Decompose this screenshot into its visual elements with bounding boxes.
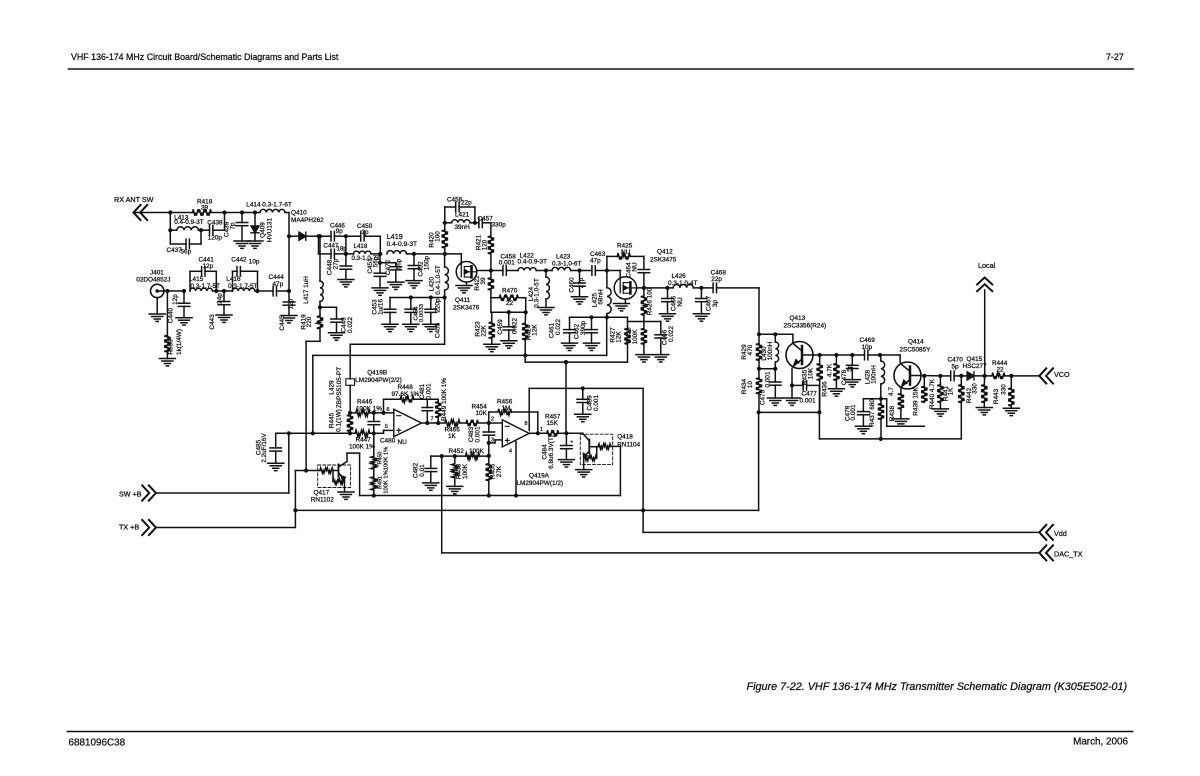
svg-text:Figure 7-22. VHF 136-174 MHz T: Figure 7-22. VHF 136-174 MHz Transmitter… bbox=[747, 681, 1128, 693]
svg-text:ZBPS5105-PT: ZBPS5105-PT bbox=[336, 367, 343, 408]
svg-text:9p: 9p bbox=[336, 228, 343, 235]
svg-text:100K 1%: 100K 1% bbox=[384, 470, 390, 494]
svg-text:C440: C440 bbox=[168, 308, 175, 324]
svg-text:0.001: 0.001 bbox=[850, 404, 857, 420]
svg-text:C477: C477 bbox=[802, 391, 818, 398]
svg-text:7p: 7p bbox=[230, 222, 237, 230]
svg-text:2: 2 bbox=[491, 417, 494, 423]
svg-text:C444: C444 bbox=[269, 274, 285, 281]
svg-text:27p: 27p bbox=[578, 277, 585, 288]
svg-text:LM2904PW(1/2): LM2904PW(1/2) bbox=[517, 480, 564, 487]
svg-text:2SK3475: 2SK3475 bbox=[650, 257, 677, 264]
svg-text:VHF 136-174 MHz Circuit Board/: VHF 136-174 MHz Circuit Board/Schematic … bbox=[71, 52, 339, 62]
svg-text:R569: R569 bbox=[168, 339, 175, 355]
svg-text:22p: 22p bbox=[461, 200, 472, 207]
svg-text:DAC_TX: DAC_TX bbox=[1054, 550, 1083, 559]
svg-text:56p: 56p bbox=[181, 249, 192, 256]
svg-text:RN1102: RN1102 bbox=[311, 497, 334, 504]
svg-text:68nH: 68nH bbox=[598, 289, 605, 305]
svg-text:NU: NU bbox=[677, 297, 684, 307]
svg-text:R448: R448 bbox=[398, 384, 414, 391]
svg-text:0.022: 0.022 bbox=[512, 318, 519, 334]
svg-text:Q409: Q409 bbox=[260, 222, 267, 238]
svg-text:470: 470 bbox=[747, 344, 754, 355]
svg-text:39: 39 bbox=[201, 205, 209, 212]
svg-text:22p: 22p bbox=[711, 276, 722, 283]
svg-text:100K 1%: 100K 1% bbox=[384, 447, 390, 471]
svg-text:24p: 24p bbox=[217, 293, 224, 304]
svg-text:47p: 47p bbox=[590, 258, 601, 265]
svg-text:22: 22 bbox=[506, 300, 514, 307]
svg-text:100nH: 100nH bbox=[767, 341, 774, 360]
svg-text:02DO4852J: 02DO4852J bbox=[136, 276, 170, 283]
svg-text:0.4-0.9-3T: 0.4-0.9-3T bbox=[518, 258, 548, 265]
svg-text:0.001: 0.001 bbox=[593, 395, 600, 411]
svg-text:100K 1%: 100K 1% bbox=[349, 444, 375, 451]
svg-text:39: 39 bbox=[480, 277, 487, 285]
svg-text:C459: C459 bbox=[497, 319, 504, 335]
svg-text:97.6K 1%: 97.6K 1% bbox=[392, 391, 420, 398]
svg-text:R445: R445 bbox=[329, 412, 336, 428]
svg-text:C438: C438 bbox=[207, 219, 223, 226]
svg-text:220: 220 bbox=[306, 316, 313, 327]
svg-text:C470: C470 bbox=[948, 357, 964, 364]
svg-text:1: 1 bbox=[540, 427, 543, 433]
svg-text:2SC3356(R24): 2SC3356(R24) bbox=[784, 323, 827, 330]
svg-text:L416: L416 bbox=[226, 276, 241, 283]
svg-text:4.7K: 4.7K bbox=[827, 363, 834, 377]
svg-text:0.4-0.9-3T: 0.4-0.9-3T bbox=[174, 219, 204, 226]
svg-text:1k(1/4W): 1k(1/4W) bbox=[176, 329, 183, 355]
svg-text:L421: L421 bbox=[455, 212, 470, 219]
svg-text:2SC5085Y: 2SC5085Y bbox=[900, 347, 932, 354]
svg-text:4: 4 bbox=[509, 449, 512, 455]
svg-text:Q412: Q412 bbox=[657, 249, 673, 256]
svg-text:27K: 27K bbox=[496, 465, 503, 477]
svg-text:R438: R438 bbox=[889, 405, 896, 421]
svg-text:15K: 15K bbox=[547, 420, 559, 427]
svg-text:R470: R470 bbox=[502, 288, 518, 295]
svg-text:0.022: 0.022 bbox=[347, 317, 354, 333]
svg-text:330p: 330p bbox=[492, 222, 507, 229]
svg-text:220p: 220p bbox=[435, 298, 442, 313]
svg-text:12p: 12p bbox=[203, 263, 214, 270]
svg-text:Q411: Q411 bbox=[455, 297, 471, 304]
svg-text:22K: 22K bbox=[481, 325, 488, 337]
svg-text:RX ANT SW: RX ANT SW bbox=[114, 195, 154, 204]
svg-text:10K: 10K bbox=[476, 410, 488, 417]
svg-text:R436: R436 bbox=[822, 381, 829, 397]
svg-text:6: 6 bbox=[387, 407, 390, 413]
svg-text:SW +B: SW +B bbox=[119, 490, 142, 499]
svg-text:C460: C460 bbox=[569, 277, 576, 293]
svg-text:18p: 18p bbox=[337, 246, 348, 253]
svg-text:C480: C480 bbox=[380, 438, 396, 445]
svg-text:L417 1uH: L417 1uH bbox=[303, 276, 310, 304]
svg-text:27p: 27p bbox=[333, 258, 340, 269]
svg-text:22: 22 bbox=[997, 367, 1005, 374]
svg-text:L419: L419 bbox=[387, 232, 403, 241]
svg-text:39nH: 39nH bbox=[455, 224, 471, 231]
svg-text:0.001: 0.001 bbox=[800, 398, 816, 405]
svg-text:0.4-1.0-5T: 0.4-1.0-5T bbox=[435, 265, 442, 295]
svg-text:Q410: Q410 bbox=[291, 210, 307, 217]
svg-text:10: 10 bbox=[747, 381, 754, 389]
svg-text:C475: C475 bbox=[760, 389, 767, 405]
svg-text:100: 100 bbox=[435, 231, 442, 242]
svg-text:0.001: 0.001 bbox=[426, 383, 433, 399]
svg-text:6.8u6.3V(T): 6.8u6.3V(T) bbox=[548, 435, 555, 469]
svg-text:2.2uF/16V: 2.2uF/16V bbox=[261, 433, 268, 463]
svg-text:5p: 5p bbox=[847, 364, 854, 372]
svg-text:C455: C455 bbox=[435, 322, 442, 338]
svg-text:100K: 100K bbox=[469, 448, 485, 455]
svg-text:100K: 100K bbox=[462, 463, 469, 479]
svg-text:0.0033: 0.0033 bbox=[419, 303, 425, 322]
svg-text:0.022: 0.022 bbox=[555, 319, 562, 335]
svg-text:R446: R446 bbox=[357, 399, 373, 406]
svg-text:March, 2006: March, 2006 bbox=[1073, 737, 1128, 748]
svg-text:12p: 12p bbox=[288, 298, 295, 309]
svg-text:120p: 120p bbox=[208, 234, 223, 241]
svg-text:R443: R443 bbox=[993, 388, 1000, 404]
svg-text:2SK3476: 2SK3476 bbox=[453, 305, 480, 312]
svg-text:100K 1%: 100K 1% bbox=[356, 406, 382, 413]
svg-text:1M: 1M bbox=[502, 405, 511, 412]
svg-text:4.7: 4.7 bbox=[888, 387, 895, 396]
svg-text:C443: C443 bbox=[209, 314, 216, 330]
svg-text:0.4-0.9-3T: 0.4-0.9-3T bbox=[387, 241, 417, 248]
svg-text:10K: 10K bbox=[808, 367, 815, 379]
svg-text:47p: 47p bbox=[273, 281, 284, 288]
svg-text:0.1(1W): 0.1(1W) bbox=[336, 409, 343, 432]
svg-text:0.01: 0.01 bbox=[419, 464, 426, 477]
svg-text:L414 0.3-1.7-6T: L414 0.3-1.7-6T bbox=[246, 201, 292, 208]
svg-text:L426: L426 bbox=[672, 273, 687, 280]
svg-text:R439 15K: R439 15K bbox=[913, 387, 920, 416]
svg-text:12p: 12p bbox=[172, 294, 179, 305]
svg-text:330: 330 bbox=[972, 383, 979, 394]
svg-text:Q419B: Q419B bbox=[367, 370, 387, 377]
svg-text:150p: 150p bbox=[424, 255, 431, 270]
svg-text:12K: 12K bbox=[532, 324, 539, 336]
svg-text:Q417: Q417 bbox=[314, 490, 330, 497]
svg-text:L423: L423 bbox=[556, 254, 571, 261]
svg-text:L429: L429 bbox=[329, 380, 336, 395]
svg-text:3p: 3p bbox=[362, 229, 370, 236]
svg-text:0.001: 0.001 bbox=[765, 371, 772, 387]
svg-text:Vdd: Vdd bbox=[1054, 529, 1067, 538]
svg-text:C469: C469 bbox=[860, 337, 876, 344]
svg-text:100nH: 100nH bbox=[871, 365, 878, 384]
svg-text:0.022: 0.022 bbox=[668, 326, 675, 342]
svg-text:5p: 5p bbox=[952, 364, 960, 371]
svg-text:NU: NU bbox=[398, 439, 408, 446]
svg-text:C445: C445 bbox=[279, 315, 286, 331]
svg-text:7: 7 bbox=[431, 417, 434, 423]
svg-text:6881096C38: 6881096C38 bbox=[69, 738, 126, 749]
svg-text:0.3-1.0-6T: 0.3-1.0-6T bbox=[552, 261, 582, 268]
svg-text:100K: 100K bbox=[632, 329, 639, 345]
svg-text:C442: C442 bbox=[231, 257, 247, 264]
svg-text:+: + bbox=[570, 440, 573, 446]
svg-text:L418: L418 bbox=[354, 243, 368, 250]
svg-text:NU: NU bbox=[632, 262, 639, 272]
svg-text:4.7K: 4.7K bbox=[929, 378, 936, 392]
svg-text:Q413: Q413 bbox=[790, 315, 806, 322]
svg-text:Q419A: Q419A bbox=[529, 473, 550, 480]
svg-text:HVU131: HVU131 bbox=[267, 217, 274, 242]
svg-text:Local: Local bbox=[978, 261, 996, 270]
svg-text:390p: 390p bbox=[580, 320, 587, 335]
svg-text:3p: 3p bbox=[712, 300, 719, 308]
svg-text:0.001: 0.001 bbox=[475, 426, 482, 442]
svg-text:TX +B: TX +B bbox=[119, 523, 139, 532]
svg-text:LM2904PW(2/2): LM2904PW(2/2) bbox=[355, 377, 402, 384]
svg-text:Q418: Q418 bbox=[617, 434, 633, 441]
svg-text:1K: 1K bbox=[948, 387, 955, 396]
svg-text:HSC277: HSC277 bbox=[963, 363, 988, 370]
svg-text:10p: 10p bbox=[249, 259, 260, 266]
svg-text:VCO: VCO bbox=[1054, 370, 1070, 379]
svg-text:12K: 12K bbox=[616, 331, 623, 343]
svg-text:56p: 56p bbox=[396, 258, 403, 269]
svg-text:C472: C472 bbox=[385, 259, 392, 275]
svg-text:R426 100: R426 100 bbox=[647, 287, 654, 315]
svg-text:R440: R440 bbox=[929, 393, 936, 409]
svg-text:0.3-1.0-4T: 0.3-1.0-4T bbox=[668, 280, 698, 287]
svg-text:1K: 1K bbox=[448, 433, 457, 440]
svg-text:5: 5 bbox=[385, 424, 388, 430]
svg-text:MA4PH262: MA4PH262 bbox=[291, 217, 324, 224]
svg-text:Q414: Q414 bbox=[908, 339, 924, 346]
svg-text:0.001: 0.001 bbox=[499, 259, 515, 266]
svg-text:10p: 10p bbox=[862, 344, 873, 351]
svg-text:Q415: Q415 bbox=[967, 356, 983, 363]
svg-text:1u/16: 1u/16 bbox=[378, 299, 385, 315]
svg-text:8: 8 bbox=[525, 421, 528, 427]
svg-text:R452: R452 bbox=[449, 448, 465, 455]
svg-text:R447: R447 bbox=[356, 437, 372, 444]
svg-text:330: 330 bbox=[1001, 384, 1008, 395]
svg-text:7-27: 7-27 bbox=[1106, 52, 1124, 62]
svg-text:120: 120 bbox=[482, 239, 489, 250]
svg-text:R437 680: R437 680 bbox=[869, 399, 876, 427]
svg-text:NU: NU bbox=[621, 249, 631, 256]
svg-text:0.3-1.0-5T: 0.3-1.0-5T bbox=[534, 278, 541, 308]
svg-text:RN1104: RN1104 bbox=[617, 442, 640, 449]
svg-text:R449 100K 1%: R449 100K 1% bbox=[441, 378, 448, 421]
svg-text:L415: L415 bbox=[189, 276, 204, 283]
